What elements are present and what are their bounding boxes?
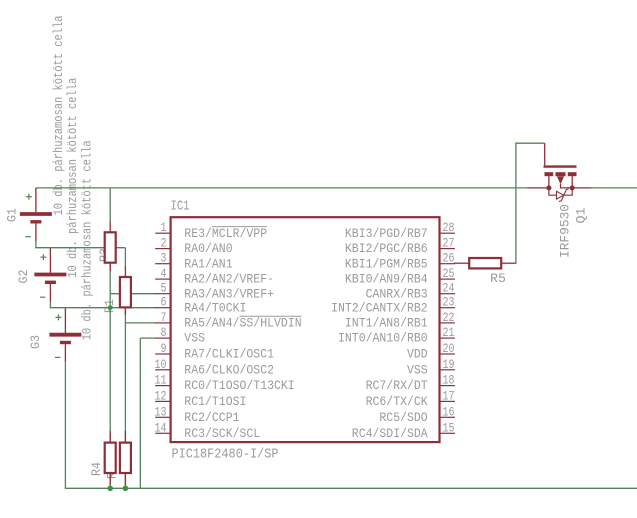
wire R1 bottom drop [124,307,126,323]
svg-text:RA7/CLKI/OSC1: RA7/CLKI/OSC1 [184,347,274,362]
svg-text:16: 16 [443,404,455,419]
svg-text:15: 15 [443,420,455,435]
svg-text:10: 10 [155,357,167,372]
transistor Q1 body diode cathode bar [559,189,569,202]
pin 9 stub [155,353,170,355]
svg-text:22: 22 [443,310,455,325]
pin 8 stub [155,337,170,339]
svg-text:6: 6 [161,295,167,310]
wire pin8 VSS left [140,337,156,339]
wire pin5 RA3 to R3 column [110,293,156,295]
wire G3 positive lead drop [64,308,66,310]
junction Q1 drain on rail [570,185,575,190]
resistor R3 lead top [109,221,111,232]
pin 3 stub [155,263,170,265]
pin 11 stub [155,385,170,387]
wire R1 column down to R2 [124,323,126,443]
svg-text:VSS: VSS [407,362,428,377]
svg-text:RC7/RX/DT: RC7/RX/DT [366,378,428,393]
wire rail A down to R1 top [124,248,126,267]
svg-text:14: 14 [155,420,167,435]
svg-text:18: 18 [443,373,455,388]
svg-text:12: 12 [155,388,167,403]
transistor Q1 channel dash 1 [545,172,554,176]
svg-text:VSS: VSS [184,331,205,346]
wire R3 bottom long drop to R4 [109,264,111,443]
svg-text:INT2/CANTX/RB2: INT2/CANTX/RB2 [331,300,428,315]
svg-text:10 db. párhuzamosan kötött cel: 10 db. párhuzamosan kötött cella [80,140,95,340]
svg-text:4: 4 [161,266,167,281]
svg-text:RE3/MCLR/VPP: RE3/MCLR/VPP [184,226,267,241]
svg-text:INT1/AN8/RB1: INT1/AN8/RB1 [345,316,428,331]
resistor R3 body [105,232,116,262]
svg-text:27: 27 [443,236,455,251]
svg-text:INT0/AN10/RB0: INT0/AN10/RB0 [338,331,428,346]
wire R3 top from rail [109,188,111,221]
resistor R2 lead bottom [124,473,126,485]
wire R4 bottom to rail [109,473,111,488]
wire rail A G1-/G2+ horizontal [35,247,125,249]
svg-text:1: 1 [161,220,167,235]
svg-text:3: 3 [161,251,167,266]
resistor R1 body [120,277,131,307]
wire G1 positive lead drop [35,188,37,190]
pin 5 stub [155,293,170,295]
pin 18 stub [440,385,455,387]
pin 15 stub [440,432,455,434]
pin 4 stub [155,278,170,280]
battery G1 [20,188,52,241]
transistor Q1 source pin stub [528,187,549,189]
svg-text:CANRX/RB3: CANRX/RB3 [366,286,428,301]
resistor R2 body [120,443,131,473]
battery G2 [34,249,66,302]
transistor Q1 channel dash 3 [568,172,577,176]
svg-text:R5: R5 [490,271,506,286]
svg-text:24: 24 [443,281,455,296]
junction R4 / bottom rail [107,486,113,492]
resistor R3 lead bottom [109,263,111,271]
svg-text:KBI3/PGD/RB7: KBI3/PGD/RB7 [345,226,428,241]
pin 22 stub [440,322,455,324]
svg-text:RC3/SCK/SCL: RC3/SCK/SCL [184,426,260,441]
svg-text:11: 11 [155,373,167,388]
svg-text:RC1/T1OSI: RC1/T1OSI [184,394,246,409]
transistor Q1 body diode loop right [564,189,573,196]
svg-text:RA3/AN3/VREF+: RA3/AN3/VREF+ [184,286,274,301]
transistor Q1 substrate arrow [557,176,564,184]
svg-text:VDD: VDD [407,347,428,362]
svg-text:23: 23 [443,295,455,310]
transistor Q1 source leg [548,176,550,188]
svg-text:5: 5 [161,281,167,296]
svg-text:25: 25 [443,266,455,281]
svg-text:RC4/SDI/SDA: RC4/SDI/SDA [352,426,428,441]
transistor Q1 gate bar [544,165,577,167]
pin 28 stub [440,232,455,234]
pin 1 stub [155,232,170,234]
pin 6 stub [155,307,170,309]
svg-text:RC2/CCP1: RC2/CCP1 [184,410,239,425]
svg-text:7: 7 [161,310,167,325]
svg-text:19: 19 [443,357,455,372]
svg-text:PIC18F2480-I/SP: PIC18F2480-I/SP [172,447,279,463]
resistor R4 body [105,443,116,473]
resistor R1 lead top [124,266,126,277]
svg-text:21: 21 [443,325,455,340]
pin 10 stub [155,369,170,371]
resistor R2 lead top [124,431,126,443]
svg-text:26: 26 [443,251,455,266]
pin 23 stub [440,307,455,309]
pin 7 stub [155,322,170,324]
resistor R5 lead left [454,262,469,264]
svg-text:RC5/SDO: RC5/SDO [379,410,427,425]
svg-text:10 db. párhuzamosan kötött cel: 10 db. párhuzamosan kötött cella [51,15,66,215]
pin 26 stub [440,263,455,265]
pin 17 stub [440,400,455,402]
svg-text:RA5/AN4/SS/HLVDIN: RA5/AN4/SS/HLVDIN [184,316,301,331]
pin 16 stub [440,416,455,418]
resistor R4 lead bottom [109,473,111,485]
pin 12 stub [155,400,170,402]
transistor Q1 drain leg [571,176,573,188]
svg-text:RC6/TX/CK: RC6/TX/CK [366,394,428,409]
svg-text:KBI1/PGM/RB5: KBI1/PGM/RB5 [345,256,428,271]
wire G2 positive lead drop [49,248,51,250]
wire bottom rail VBAT- (y=488) [65,487,637,489]
svg-text:8: 8 [161,325,167,340]
svg-text:2: 2 [161,236,167,251]
svg-text:13: 13 [155,404,167,419]
transistor Q1 body diode triangle [557,191,564,199]
pin 2 stub [155,248,170,250]
resistor R1 lead bottom [124,307,126,315]
svg-text:RA4/T0CKI: RA4/T0CKI [184,300,246,315]
pin 13 stub [155,416,170,418]
svg-text:G1: G1 [5,208,20,222]
pin 20 stub [440,353,455,355]
wire VSS drop to bottom rail [139,338,141,488]
junction R3 column / rail B [108,305,113,310]
wire top rail VBAT+ left segment (y=188) [36,187,528,189]
svg-text:G3: G3 [28,335,43,349]
svg-text:RA1/AN1: RA1/AN1 [184,256,232,271]
transistor Q1 channel dash 2 [556,172,566,176]
pin 27 stub [440,248,455,250]
resistor R5 body [469,258,501,268]
svg-text:IRF9530: IRF9530 [558,204,573,258]
svg-text:RA2/AN2/VREF-: RA2/AN2/VREF- [184,272,274,287]
transistor Q1 drain pin stub [572,187,591,189]
op-amp/IC body IC1 PIC18F2480 [171,217,440,442]
svg-text:IC1: IC1 [171,199,190,215]
pin 14 stub [155,432,170,434]
wire Q1 gate vertical from R5 [515,143,517,263]
overline SS/HLVDIN on pin 7 [240,315,302,317]
wire G1 negative to rail A [35,240,37,248]
svg-text:RA0/AN0: RA0/AN0 [184,241,232,256]
wire G2 negative to rail B [49,301,51,308]
battery G3 [49,309,81,362]
overline MCLR/VPP on pin 1 [212,226,267,228]
pin 24 stub [440,293,455,295]
junction R2 / bottom rail [123,486,129,492]
svg-text:R4: R4 [89,462,104,476]
svg-text:RA6/CLKO/OSC2: RA6/CLKO/OSC2 [184,362,274,377]
transistor Q1 body diode loop left [549,188,557,195]
svg-text:KBI2/PGC/RB6: KBI2/PGC/RB6 [345,241,428,256]
wire G3 negative down to bottom rail [64,361,66,488]
junction Q1 source on rail [546,185,551,190]
wire pin7 RA5 to R1 column [125,322,156,324]
resistor R5 lead right [501,262,516,264]
wire rail B G2-/G3+ horizontal [50,307,156,309]
wire R2 bottom to rail [124,473,126,488]
svg-text:17: 17 [443,388,455,403]
pin 21 stub [440,337,455,339]
svg-text:Q1: Q1 [574,207,589,223]
pin 25 stub [440,278,455,280]
svg-text:KBI0/AN9/RB4: KBI0/AN9/RB4 [345,272,428,287]
svg-text:RC0/T1OSO/T13CKI: RC0/T1OSO/T13CKI [184,378,294,393]
svg-text:20: 20 [443,341,455,356]
wire top rail VBAT+ right segment (y=188) [592,187,637,189]
pin 19 stub [440,369,455,371]
wire Q1 gate horizontal [515,142,544,144]
resistor R4 lead top [109,431,111,443]
svg-text:28: 28 [443,220,455,235]
transistor Q1 gate lead [544,143,546,165]
svg-text:G2: G2 [16,270,31,284]
svg-text:9: 9 [161,341,167,356]
